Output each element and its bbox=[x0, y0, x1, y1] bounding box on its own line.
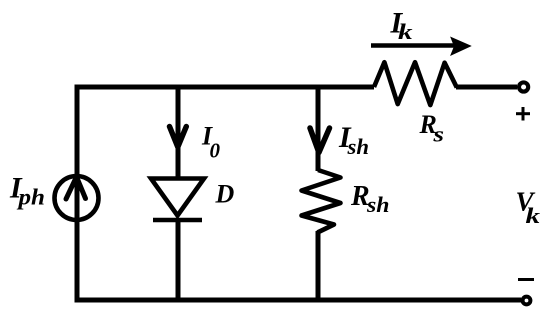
svg-text:s: s bbox=[432, 122, 444, 147]
wire: left branch vertical bbox=[75, 85, 80, 303]
svg-text:sh: sh bbox=[346, 134, 369, 159]
wire: top bus from left branch to Rs bbox=[77, 85, 374, 90]
label Rsh bbox=[350, 181, 390, 217]
current arrow Ik (right) bbox=[371, 38, 471, 56]
resistor Rsh (vertical zigzag) bbox=[302, 170, 341, 233]
label Vk bbox=[516, 187, 541, 228]
diode D bbox=[151, 179, 204, 221]
wire: shunt branch lower bbox=[316, 231, 321, 303]
label Iph bbox=[9, 172, 45, 210]
wire: Rs to positive terminal bbox=[456, 85, 517, 90]
label Rs bbox=[419, 110, 445, 147]
svg-text:k: k bbox=[526, 203, 541, 228]
current arrow Ish (down) bbox=[310, 128, 330, 153]
svg-text:sh: sh bbox=[366, 192, 390, 217]
minus sign bbox=[518, 278, 534, 281]
wire: shunt branch upper bbox=[316, 87, 321, 171]
wire: bottom bus bbox=[75, 298, 522, 303]
label I0 bbox=[201, 122, 221, 163]
negative output terminal bbox=[523, 297, 531, 305]
current source Iph (circle with upward arrow) bbox=[55, 176, 99, 220]
label D bbox=[215, 180, 235, 209]
svg-text:k: k bbox=[398, 19, 413, 44]
svg-text:D: D bbox=[215, 180, 235, 209]
svg-text:0: 0 bbox=[210, 139, 221, 163]
resistor Rs (horizontal zigzag) bbox=[374, 62, 457, 105]
label Ish bbox=[338, 121, 369, 159]
svg-text:ph: ph bbox=[16, 185, 45, 210]
plus sign bbox=[516, 107, 530, 121]
wire: diode branch upper bbox=[176, 87, 181, 179]
current arrow I0 (down) bbox=[170, 127, 187, 148]
positive output terminal bbox=[519, 82, 528, 91]
label Ik bbox=[390, 6, 413, 44]
wire: diode branch lower bbox=[176, 218, 181, 303]
